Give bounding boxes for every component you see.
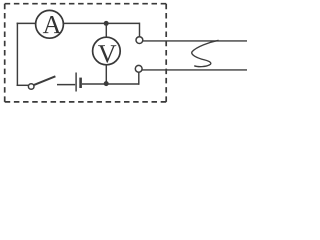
switch S1 lever [34,76,56,85]
wire: junction down to voltmeter [105,23,107,37]
ammeter A1 [36,10,64,38]
terminal: bottom binding post (open circle) [135,65,142,72]
switch S1 pivot [28,84,34,90]
wire: bottom lead to right edge [142,69,247,71]
dashed enclosure box [5,4,167,102]
wire: switch to battery [57,84,75,86]
wire: bottom horizontal from corner to switch [17,84,29,86]
wire: bottom-right corner up to terminal [138,72,140,85]
wire: battery to bottom-right corner [82,83,139,85]
wire: top lead to right edge [143,40,247,42]
wire: ammeter to top-right corner [63,22,139,24]
flexible test wire (S-squiggle between leads) [192,40,219,66]
node: bottom junction [104,81,109,86]
terminal: top binding post (open circle) [136,37,143,44]
node: top junction [104,21,109,26]
wire: left vertical [16,23,18,86]
battery B1 positive plate (long) [75,73,77,92]
wire: voltmeter down to bottom wire [105,65,107,85]
voltmeter V1 [93,37,121,65]
wire: top-right corner down to terminal [139,23,141,37]
wire: top-left horizontal to ammeter [17,22,36,24]
battery B1 negative plate (short thick) [79,78,82,88]
